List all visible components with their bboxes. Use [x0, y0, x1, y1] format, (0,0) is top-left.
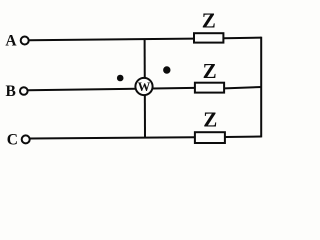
svg-text:Z: Z: [203, 59, 217, 83]
wire top Z to bus: [224, 37, 262, 40]
wattmeter W1: [135, 78, 152, 95]
label A: [5, 33, 17, 50]
wire phase C horizontal: [30, 137, 195, 138]
label Z3: [203, 107, 217, 131]
wire right bus vertical: [260, 37, 262, 138]
svg-text:Z: Z: [203, 107, 217, 131]
terminal C: [22, 135, 30, 143]
svg-text:W: W: [138, 80, 151, 94]
svg-text:B: B: [6, 83, 16, 100]
impedance Z1 box (phase A): [194, 33, 223, 42]
wire phase A horizontal: [29, 39, 194, 41]
label C: [7, 131, 18, 148]
terminal B: [20, 87, 28, 95]
wire bottom Z to bus: [225, 136, 261, 139]
wire middle Z to bus: [225, 87, 262, 88]
impedance Z2 box (phase B): [195, 83, 224, 93]
label B: [6, 83, 16, 100]
polarity dot left (current coil mark): [117, 75, 124, 82]
impedance Z3 box (phase C): [195, 132, 225, 143]
svg-text:C: C: [7, 131, 18, 148]
wire phase B horizontal: [28, 88, 195, 90]
label Z2: [203, 59, 217, 83]
terminal A: [21, 37, 29, 45]
wire wattmeter voltage branch vertical: [144, 39, 146, 138]
label Z1: [202, 8, 216, 32]
polarity dot right (voltage coil mark): [163, 66, 170, 73]
svg-text:Z: Z: [202, 8, 216, 32]
svg-text:A: A: [5, 33, 17, 50]
